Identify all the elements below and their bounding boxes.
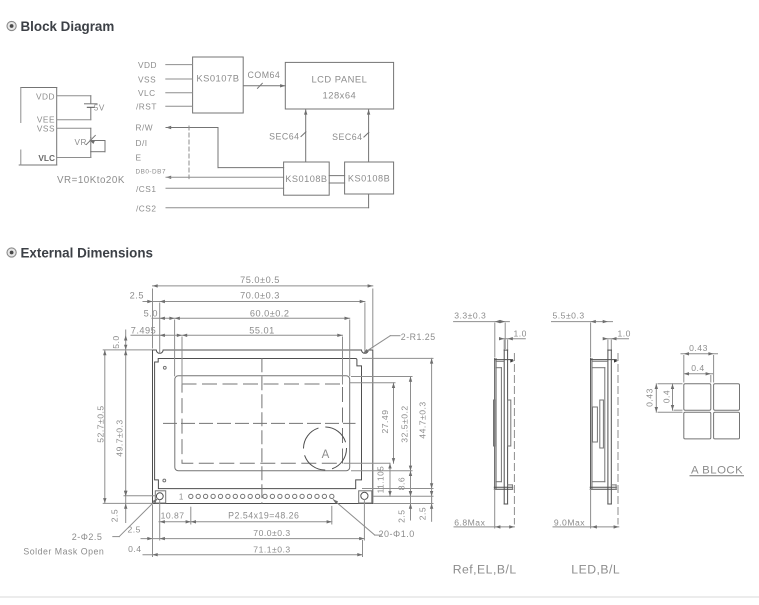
svg-text:E: E xyxy=(136,153,142,163)
label 20-PHI1.0 with leader xyxy=(333,499,415,539)
dimension 11.105 xyxy=(376,463,391,496)
svg-text:9.0Max: 9.0Max xyxy=(554,517,585,527)
centerline horizontal xyxy=(164,422,356,424)
block U2a KS0108B xyxy=(284,162,330,195)
svg-text:R/W: R/W xyxy=(136,123,154,133)
svg-text:20-Φ1.0: 20-Φ1.0 xyxy=(379,529,415,539)
signal /CS2 xyxy=(136,194,369,213)
side view 2: bezel top tab xyxy=(591,359,618,362)
svg-text:A: A xyxy=(322,449,330,461)
side view 2: PCB xyxy=(608,350,611,504)
block LCD PANEL 128x64 xyxy=(285,62,393,109)
signal /CS1 xyxy=(136,184,284,194)
svg-text:Solder Mask Open: Solder Mask Open xyxy=(23,547,104,557)
section bullet: Block Diagram xyxy=(7,21,16,30)
dimension 10.87 xyxy=(159,500,191,540)
svg-text:VLC: VLC xyxy=(38,153,55,163)
svg-text:SEC64: SEC64 xyxy=(269,132,299,142)
power box U3 (VDD/VEE/VSS/VLC) xyxy=(19,88,57,166)
dimension 2.5 (vertical, bottom-left) xyxy=(109,491,127,523)
svg-text:0.4: 0.4 xyxy=(661,390,671,403)
svg-text:5.0: 5.0 xyxy=(144,308,158,318)
svg-text:0.43: 0.43 xyxy=(689,343,708,353)
dimension 60.0±0.2 xyxy=(144,308,350,375)
dashed bundle line xyxy=(188,126,190,179)
svg-text:VLC: VLC xyxy=(138,88,156,98)
bezel hole top-left xyxy=(163,366,166,369)
svg-text:LED,B/L: LED,B/L xyxy=(571,562,620,576)
svg-text:External Dimensions: External Dimensions xyxy=(21,246,153,261)
svg-text:/CS2: /CS2 xyxy=(136,203,156,213)
dimension 52.7±0.5 xyxy=(95,350,151,504)
svg-text:71.1±0.3: 71.1±0.3 xyxy=(253,545,290,555)
label A BLOCK xyxy=(690,464,744,476)
svg-text:2.5: 2.5 xyxy=(397,509,407,522)
side view 2: bezel bottom tab xyxy=(590,485,616,489)
svg-text:D/I: D/I xyxy=(136,138,148,148)
svg-text:1: 1 xyxy=(179,493,184,502)
A block: dimension 0.43 vertical xyxy=(645,384,682,412)
svg-text:128x64: 128x64 xyxy=(323,90,357,101)
side view 1: dimension 3.3±0.3 xyxy=(454,311,510,357)
svg-text:1.0: 1.0 xyxy=(618,328,631,338)
svg-text:VSS: VSS xyxy=(138,74,156,84)
svg-text:5V: 5V xyxy=(94,104,105,113)
svg-text:/RST: /RST xyxy=(136,101,157,111)
wires between KS0108B blocks xyxy=(329,176,344,183)
A block: dimension 0.43 horizontal xyxy=(681,343,718,382)
side view 1: IC on PCB back xyxy=(508,400,511,446)
side view 1: PCB xyxy=(504,350,507,504)
svg-text:Ref,EL,B/L: Ref,EL,B/L xyxy=(453,562,517,576)
bezel hole bottom-left xyxy=(163,479,166,482)
dimension 32.5±0.2 xyxy=(352,377,413,471)
wire 5V to VEE xyxy=(57,108,91,120)
svg-text:KS0108B: KS0108B xyxy=(285,174,327,184)
svg-text:1.0: 1.0 xyxy=(514,328,527,338)
battery 5V xyxy=(85,104,105,113)
svg-text:5.5±0.3: 5.5±0.3 xyxy=(553,311,585,321)
dimension 49.7±0.3 xyxy=(114,350,155,496)
svg-text:2-Φ2.5: 2-Φ2.5 xyxy=(72,532,103,542)
svg-text:LCD PANEL: LCD PANEL xyxy=(311,74,367,85)
potentiometer VR xyxy=(75,135,106,151)
dimension 55.01 xyxy=(131,326,343,384)
bus SEC64 right xyxy=(332,109,370,162)
mounting pad left (solder mask open) xyxy=(155,491,165,503)
bus SEC64 left xyxy=(269,109,307,162)
dimension 70.0±0.3 (bottom) xyxy=(127,500,364,541)
svg-text:DB0-DB7: DB0-DB7 xyxy=(136,169,167,176)
svg-text:2-R1.25: 2-R1.25 xyxy=(401,332,436,342)
pin holes 1-20 xyxy=(189,494,334,498)
svg-text:VR=10Kto20K: VR=10Kto20K xyxy=(57,175,125,186)
A block: dimension 0.4 horizontal xyxy=(684,363,713,382)
svg-text:49.7±0.3: 49.7±0.3 xyxy=(114,419,124,456)
svg-text:COM64: COM64 xyxy=(248,70,281,80)
wire VR bottom to VLC xyxy=(57,152,91,158)
svg-text:7.495: 7.495 xyxy=(131,326,157,336)
block U1 KS0107B xyxy=(193,57,244,113)
side view 1: LCD glass xyxy=(496,368,501,482)
dimension 8.6 xyxy=(397,471,413,496)
footer rule xyxy=(0,596,759,598)
side view 1: bezel top tab xyxy=(495,359,515,362)
active area (dashed) xyxy=(182,384,343,463)
side view 1: EL lamp bump xyxy=(494,400,495,446)
dimension P2.54x19=48.26 xyxy=(191,506,332,524)
bus COM64 (KS0107B to LCD panel) xyxy=(244,70,286,88)
dimension 70.0±0.3 (top) xyxy=(130,291,365,353)
svg-text:44.7±0.3: 44.7±0.3 xyxy=(417,401,427,438)
svg-text:32.5±0.2: 32.5±0.2 xyxy=(399,405,409,442)
A block: dimension 0.4 vertical xyxy=(661,384,682,410)
svg-text:A BLOCK: A BLOCK xyxy=(691,464,743,476)
svg-text:2.5: 2.5 xyxy=(109,509,119,522)
svg-text:Block Diagram: Block Diagram xyxy=(21,19,115,34)
svg-text:70.0±0.3: 70.0±0.3 xyxy=(240,291,280,301)
svg-text:/CS1: /CS1 xyxy=(136,184,156,194)
display window xyxy=(175,376,350,471)
svg-text:KS0107B: KS0107B xyxy=(196,73,239,84)
side view 1: bezel front xyxy=(495,359,496,489)
side view 1: bezel bottom tab xyxy=(494,485,512,489)
svg-text:75.0±0.5: 75.0±0.5 xyxy=(240,275,280,285)
svg-text:VDD: VDD xyxy=(138,60,157,70)
block U2b KS0108B xyxy=(345,162,394,194)
dimension 44.7±0.3 xyxy=(363,358,434,503)
dimension 5.0 (vertical, top-left) xyxy=(111,330,127,350)
svg-text:11.105: 11.105 xyxy=(376,466,385,493)
svg-text:52.7±0.5: 52.7±0.5 xyxy=(95,405,105,442)
side view 2: LCD glass xyxy=(592,368,605,482)
svg-text:0.4: 0.4 xyxy=(691,363,704,373)
wire R/W down to KS0108B xyxy=(218,128,284,168)
svg-text:2.5: 2.5 xyxy=(418,507,428,520)
metal bezel outline xyxy=(155,359,362,489)
mounting pad right (solder mask open) xyxy=(359,491,372,503)
wire VLC xyxy=(166,92,193,94)
svg-text:55.01: 55.01 xyxy=(249,326,275,336)
side view 2: dimension 5.5±0.3 xyxy=(552,311,613,357)
svg-text:3.3±0.3: 3.3±0.3 xyxy=(454,311,486,321)
dimension 75.0±0.5 xyxy=(153,275,373,348)
PCB outline (front view) xyxy=(153,350,373,504)
svg-text:27.49: 27.49 xyxy=(380,409,390,433)
side view 2: dimension 9.0Max xyxy=(553,490,619,529)
side view 1: dimension 6.8Max xyxy=(454,490,514,529)
svg-text:6.8Max: 6.8Max xyxy=(454,517,485,527)
centerline vertical xyxy=(261,359,263,503)
svg-text:70.0±0.3: 70.0±0.3 xyxy=(253,528,290,538)
side view 2: bezel front xyxy=(591,359,592,489)
wire VDD to 5V supply xyxy=(57,96,91,104)
dimension 2.5 (right outer) xyxy=(374,491,434,521)
svg-text:VSS: VSS xyxy=(37,123,55,133)
svg-text:P2.54x19=48.26: P2.54x19=48.26 xyxy=(228,510,299,520)
svg-text:VR: VR xyxy=(75,138,87,147)
A block pixel squares xyxy=(684,384,740,439)
dimension 71.1±0.3 xyxy=(128,505,362,557)
svg-text:KS0108B: KS0108B xyxy=(348,174,390,184)
svg-text:VDD: VDD xyxy=(36,91,55,101)
dimension 27.49 xyxy=(344,383,395,464)
svg-text:5.0: 5.0 xyxy=(111,335,121,348)
wire VSS to VR top xyxy=(57,128,91,137)
side view 1: dimension 1.0 xyxy=(499,328,527,349)
wire VDD xyxy=(166,64,193,66)
side view 1: back plane dashed xyxy=(513,354,515,525)
label 2-R1.25 with leader xyxy=(363,332,435,353)
svg-text:0.43: 0.43 xyxy=(645,388,655,407)
svg-text:SEC64: SEC64 xyxy=(332,132,362,142)
signal R/W with arrow xyxy=(136,123,219,133)
side view 2: back plane dashed xyxy=(617,354,619,525)
svg-text:0.4: 0.4 xyxy=(128,544,141,554)
side view 2: LED backlight bar xyxy=(600,400,604,448)
svg-text:10.87: 10.87 xyxy=(161,510,185,520)
section bullet: External Dimensions xyxy=(7,248,16,257)
wire /RST xyxy=(166,105,193,107)
side view 2: dimension 1.0 xyxy=(603,328,631,349)
label 2-PHI2.5 with leader xyxy=(72,499,158,543)
side view 2: LED window xyxy=(593,407,598,442)
wire VSS xyxy=(166,78,193,80)
detail circle A xyxy=(304,427,347,470)
bus DB0-DB7 xyxy=(166,176,284,179)
svg-text:2.5: 2.5 xyxy=(130,291,144,301)
svg-text:60.0±0.2: 60.0±0.2 xyxy=(250,308,290,318)
dimension 2.5 (right inner) xyxy=(397,491,413,523)
